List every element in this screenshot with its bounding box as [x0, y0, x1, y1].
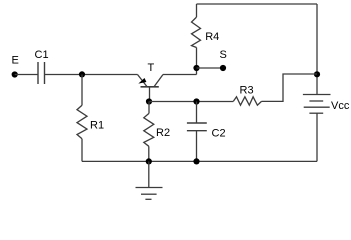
- bottom rail wire: [82, 160, 317, 162]
- node A junction dot: [79, 71, 85, 77]
- label R2: [156, 127, 170, 139]
- label C1: [35, 49, 49, 61]
- capacitor C2: [187, 123, 207, 131]
- transistor T: [138, 75, 164, 87]
- wire R4 top: [196, 4, 198, 17]
- wire C2 bottom: [196, 131, 198, 162]
- wire R2 top: [148, 102, 150, 114]
- wire E to C1: [15, 74, 38, 76]
- terminal S: [220, 65, 226, 71]
- label R3: [240, 85, 254, 97]
- middle rail wire: [150, 101, 234, 103]
- wire R4 vertical to collector: [196, 48, 198, 75]
- svg-text:R3: R3: [240, 85, 254, 97]
- node collector junction dot: [193, 65, 199, 71]
- node C2 bottom junction dot: [193, 158, 199, 164]
- wire C2 top: [196, 102, 198, 124]
- wire collector of T to node: [163, 74, 197, 76]
- label R1: [90, 120, 104, 132]
- resistor R1: [77, 105, 87, 139]
- wire R3 to Vcc node: [262, 74, 318, 101]
- label E: [12, 55, 19, 67]
- svg-text:T: T: [148, 62, 155, 74]
- svg-text:S: S: [220, 49, 227, 61]
- svg-text:R4: R4: [205, 31, 219, 43]
- wire R1 to bottom rail: [81, 139, 83, 162]
- label R4: [205, 31, 219, 43]
- terminal E: [12, 71, 18, 77]
- label T: [148, 62, 155, 74]
- svg-text:C2: C2: [212, 128, 226, 140]
- wire base of T down: [149, 87, 151, 102]
- right rail wire bottom: [316, 113, 318, 161]
- resistor R2: [144, 114, 154, 147]
- ground: [136, 161, 163, 199]
- svg-text:C1: C1: [35, 49, 49, 61]
- resistor R4: [192, 17, 201, 47]
- svg-text:R2: R2: [156, 127, 170, 139]
- battery Vcc: [303, 95, 331, 114]
- right rail wire top: [316, 4, 318, 95]
- node C2 top junction dot: [193, 98, 199, 104]
- svg-text:R1: R1: [90, 120, 104, 132]
- node Vcc junction dot: [314, 71, 320, 77]
- label C2: [212, 128, 226, 140]
- label S: [220, 49, 227, 61]
- resistor R3: [233, 97, 261, 105]
- wire R2 bottom: [148, 146, 150, 161]
- wire to terminal S: [197, 67, 224, 69]
- wire node A down to R1: [81, 75, 83, 106]
- svg-text:Vcc: Vcc: [331, 100, 350, 112]
- top rail wire: [197, 3, 318, 5]
- svg-text:E: E: [12, 55, 19, 67]
- node base junction dot: [146, 98, 152, 104]
- capacitor C1: [38, 62, 45, 84]
- wire C1 to transistor: [45, 74, 138, 76]
- node R2 bottom junction dot: [146, 158, 152, 164]
- label Vcc: [331, 100, 350, 112]
